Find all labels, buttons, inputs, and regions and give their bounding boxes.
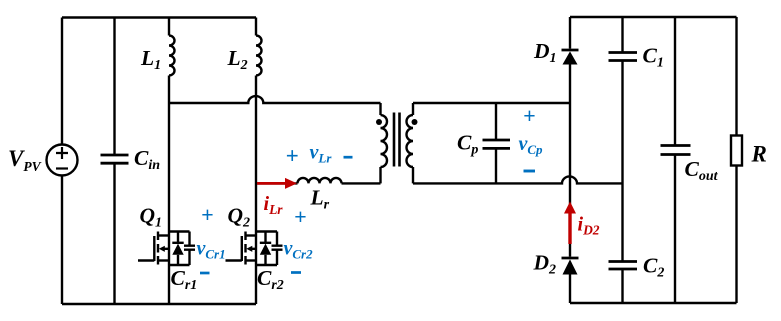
wire Q1 source to rail [168, 265, 170, 304]
svg-text:Cp: Cp [457, 131, 478, 158]
label vLr minus [344, 156, 353, 159]
capacitor Cp [483, 103, 511, 183]
current arrow iLr [257, 178, 297, 189]
svg-text:R: R [751, 142, 767, 167]
wire secondary top [413, 102, 570, 104]
svg-text:+: + [201, 202, 214, 227]
wire Q2 node to Lr [256, 182, 298, 184]
wire bottom rail right [570, 302, 737, 304]
capacitor C1 [609, 17, 638, 262]
wire top rail left [62, 16, 256, 18]
capacitor C2 [609, 262, 638, 304]
svg-text:Cin: Cin [134, 146, 160, 173]
svg-text:vCr2: vCr2 [284, 238, 314, 262]
svg-text:+: + [523, 103, 536, 128]
svg-text:vCr1: vCr1 [197, 238, 226, 262]
wire Lr to primary [342, 182, 381, 184]
transformer secondary dot [412, 119, 418, 125]
transformer core [394, 113, 400, 167]
diode D1 [562, 17, 579, 257]
label vCr1 minus [200, 272, 210, 275]
capacitor Cout [661, 17, 691, 303]
wire bottom rail left [62, 303, 256, 305]
svg-text:D1: D1 [533, 39, 557, 66]
transformer primary winding [381, 103, 388, 183]
svg-text:L1: L1 [140, 46, 161, 73]
label vCr2 minus [291, 271, 301, 274]
svg-text:C1: C1 [643, 44, 664, 71]
inductor Lr [298, 178, 342, 183]
resistor R [731, 17, 742, 303]
source VPV [47, 18, 78, 305]
current arrow iD2 [564, 202, 576, 245]
svg-text:VPV: VPV [8, 146, 42, 174]
wire secondary bottom with hop over D branch [413, 176, 623, 183]
inductor L1 [169, 18, 175, 232]
svg-text:Q1: Q1 [140, 204, 163, 231]
capacitor Cin [101, 18, 129, 305]
label vCp minus [524, 170, 536, 173]
svg-text:Cr1: Cr1 [171, 266, 198, 293]
svg-text:Cr2: Cr2 [257, 266, 284, 293]
capacitor Cr1 [184, 232, 195, 266]
transformer primary dot [376, 119, 382, 125]
svg-text:Lr: Lr [310, 186, 330, 213]
svg-text:vLr: vLr [310, 142, 333, 166]
svg-text:Cout: Cout [685, 157, 719, 184]
svg-text:+: + [286, 144, 299, 169]
wire top rail right [570, 16, 737, 18]
svg-text:C2: C2 [643, 254, 664, 281]
svg-text:+: + [294, 204, 307, 229]
svg-text:D2: D2 [533, 251, 557, 278]
capacitor Cr2 [272, 232, 283, 266]
wire primary top with hop over L2 [169, 96, 381, 103]
wire Q2 source to rail [255, 265, 257, 304]
transistor Q1 [138, 232, 190, 266]
diode D2 [562, 258, 579, 303]
transformer secondary winding [407, 103, 414, 183]
svg-text:iD2: iD2 [578, 214, 600, 238]
svg-text:Q2: Q2 [228, 204, 251, 231]
svg-text:iLr: iLr [264, 193, 284, 217]
svg-text:L2: L2 [227, 46, 248, 73]
inductor L2 [256, 18, 262, 232]
transistor Q2 [226, 232, 278, 266]
svg-text:vCp: vCp [519, 133, 544, 157]
